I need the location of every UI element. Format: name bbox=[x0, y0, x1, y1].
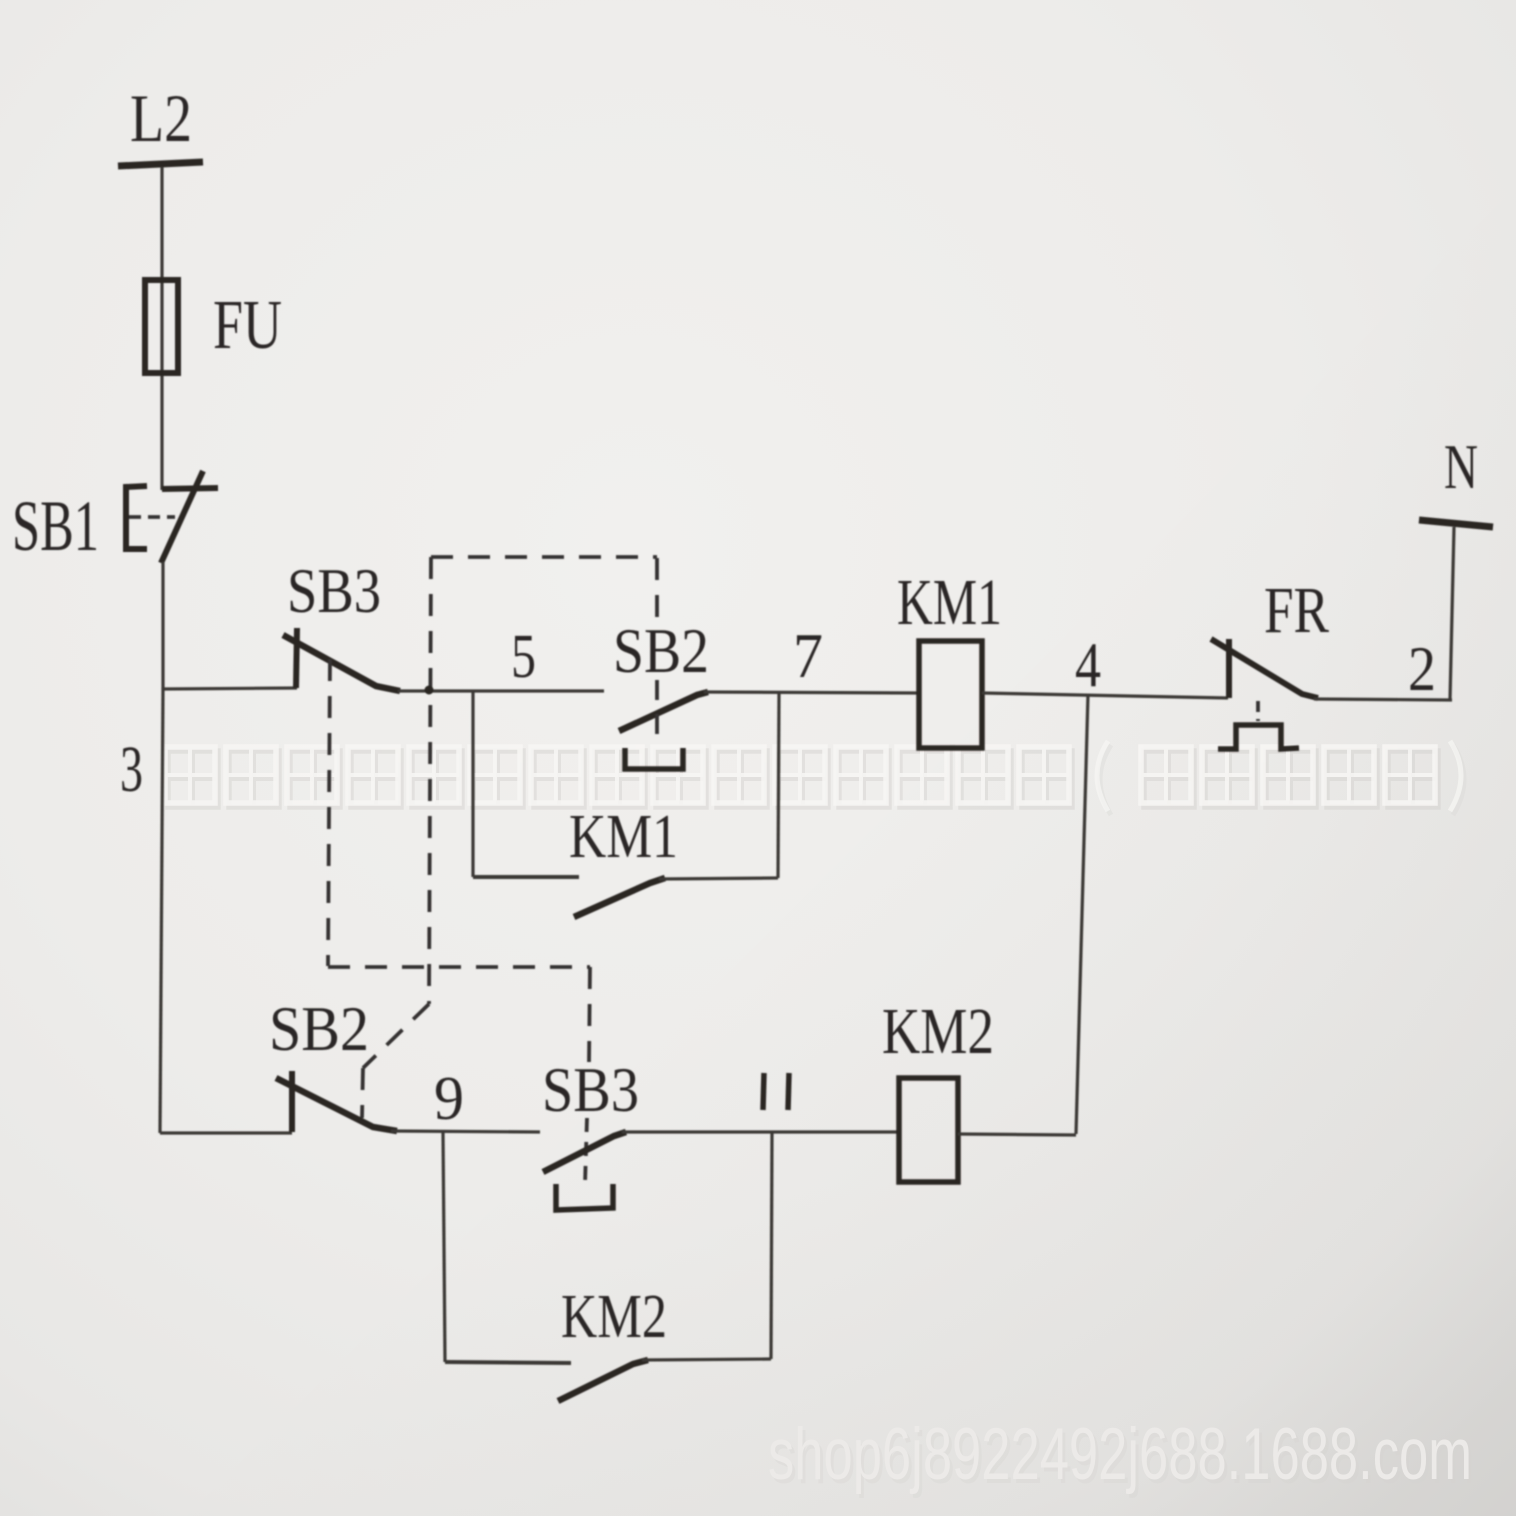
junction dot on top rung bbox=[425, 686, 434, 695]
terminal N bbox=[1419, 520, 1493, 527]
wire node 7 down bbox=[778, 693, 779, 878]
svg-text:KM2: KM2 bbox=[882, 995, 994, 1068]
svg-text:L2: L2 bbox=[130, 80, 192, 156]
svg-text:2: 2 bbox=[1408, 633, 1436, 704]
svg-text:KM1: KM1 bbox=[569, 803, 678, 871]
svg-text:KM2: KM2 bbox=[561, 1283, 667, 1351]
wire SB1 to node 3 bbox=[161, 562, 164, 689]
wire L2 to FU bbox=[160, 167, 163, 490]
coil KM1 bbox=[919, 641, 982, 748]
svg-text:shop6j8922492j688.1688.com: shop6j8922492j688.1688.com bbox=[768, 1414, 1472, 1495]
wire KM1 coil to FR (node 4) bbox=[982, 693, 1228, 698]
wire SB3 to SB2 (node 5) bbox=[398, 689, 604, 692]
svg-text:SB2: SB2 bbox=[269, 993, 369, 1064]
svg-text:SB2: SB2 bbox=[613, 615, 709, 686]
contact KM2 auxiliary (NO, self holding) bbox=[445, 1359, 771, 1401]
svg-text:FR: FR bbox=[1264, 574, 1329, 647]
wire SB2 to KM1 coil (node 7) bbox=[704, 692, 919, 693]
svg-text:SB1: SB1 bbox=[12, 486, 99, 566]
svg-text:3: 3 bbox=[120, 733, 143, 806]
svg-text:FU: FU bbox=[213, 287, 282, 364]
wire node 4 down bbox=[1076, 694, 1088, 1134]
watermark shop url bbox=[768, 1414, 1475, 1499]
pushbutton SB3 NO contact (bottom) bbox=[543, 1132, 626, 1210]
wire node 9 down bbox=[443, 1132, 445, 1362]
svg-text:9: 9 bbox=[434, 1065, 464, 1133]
svg-text:4: 4 bbox=[1075, 629, 1101, 700]
coil KM2 bbox=[899, 1078, 958, 1182]
pushbutton SB1 (NC) bbox=[126, 471, 218, 563]
wire node 3 down to lower rung bbox=[160, 688, 163, 1133]
svg-text:KM1: KM1 bbox=[897, 566, 1002, 639]
terminal L2 bbox=[118, 162, 203, 166]
label node 11 bbox=[763, 1073, 789, 1110]
fuse FU bbox=[145, 280, 178, 373]
wire node 11 down bbox=[771, 1132, 772, 1359]
pushbutton SB2 NC contact (bottom) bbox=[276, 1071, 397, 1132]
svg-text:SB3: SB3 bbox=[287, 555, 381, 626]
thermal relay FR NC contact bbox=[1211, 639, 1318, 749]
svg-text:5: 5 bbox=[511, 623, 536, 691]
watermark (embossed seller stamp) bbox=[165, 741, 1464, 815]
pushbutton SB3 NC contact (top) bbox=[283, 628, 400, 691]
wire node3 to SB3 bbox=[162, 688, 297, 689]
svg-text:N: N bbox=[1444, 431, 1478, 502]
pushbutton SB2 NO contact (top) bbox=[619, 692, 708, 769]
mechanical linkage SB3 (dashed) bbox=[328, 659, 590, 1184]
contact KM1 auxiliary (NO, self holding) bbox=[473, 691, 778, 917]
svg-text:SB3: SB3 bbox=[542, 1054, 639, 1125]
wire lower rung left bbox=[160, 1131, 292, 1134]
svg-text:7: 7 bbox=[793, 620, 823, 691]
wire SB3 to KM2 coil (node 11) bbox=[622, 1130, 899, 1133]
wire N down bbox=[1450, 527, 1454, 700]
wire KM2 coil to node 4 line bbox=[958, 1134, 1076, 1135]
wire SB2 to SB3 (node 9) bbox=[391, 1131, 540, 1132]
wire FR to N (node 2) bbox=[1314, 699, 1452, 700]
mechanical linkage SB2 (dashed) bbox=[362, 557, 657, 1118]
